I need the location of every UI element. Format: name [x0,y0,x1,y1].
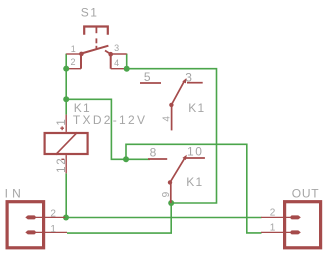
switch S1 lever pole2 [105,51,111,55]
svg-text:3: 3 [114,43,119,53]
svg-text:9: 9 [161,191,172,197]
wire net N3 pole2 to contact2 common [127,69,217,203]
wire net N1 switch pole1 to coil top [65,54,67,115]
switch S1 pole2 contact edge [110,54,112,69]
relay contact A pivot dot [169,103,173,107]
svg-text:IN: IN [5,187,25,201]
relay K1 coil minus mark [61,158,64,160]
switch S1 lever pole1 [81,46,108,54]
switch S1 pole2 pin3 line [111,53,127,55]
svg-text:2: 2 [50,209,56,220]
wire net N4 coil bottom to IN pin2 [65,173,67,217]
svg-text:4: 4 [162,116,173,122]
junction dot switch pole1 / pin2 [63,66,69,72]
junction dot contact2 common [168,200,174,206]
svg-text:TXD2-12V: TXD2-12V [73,113,147,127]
connector IN pin2 pad [25,215,35,219]
wire net N2 branch to OUT pin1 [126,144,262,233]
connector IN pin1 line [36,231,68,233]
switch S1 pole2 pivot dot [108,52,113,57]
connector OUT pin2 line [261,216,291,218]
svg-text:2: 2 [270,208,276,219]
switch S1 dashed link [95,38,97,43]
svg-text:8: 8 [150,145,157,159]
svg-text:OUT: OUT [292,187,320,201]
switch S1 pole1 contact edge [80,54,82,69]
switch S1 pole2 pin4 line [111,68,126,70]
svg-text:K1: K1 [186,175,203,189]
svg-text:12: 12 [56,157,68,173]
svg-text:2: 2 [71,57,76,67]
svg-text:3: 3 [185,70,192,84]
connector OUT pin2 pad [291,215,301,219]
svg-text:1: 1 [56,119,68,125]
connector OUT pin1 pad [291,230,301,234]
switch S1 actuator stem [95,27,97,34]
relay contact A pin4 line [171,105,173,130]
svg-text:1: 1 [270,223,276,234]
relay contact A pin5 line [140,82,161,84]
relay K1 coil body [45,133,88,154]
junction dot IN pin2 [63,215,69,221]
svg-text:5: 5 [144,70,151,84]
relay contact A lever [171,81,184,105]
svg-text:4: 4 [114,58,119,68]
relay contact B pivot dot [168,180,172,184]
connector IN pin2 line [36,216,66,218]
relay contact A lever arrowhead [182,78,186,83]
relay K1 coil bottom pin [65,155,67,173]
wire net N4 IN pin2 to OUT pin2 [65,217,262,219]
wire net N3 switch pole2 down [126,54,128,69]
relay K1 coil plus mark [60,127,64,129]
junction dot switch pole2 / pin4 [124,66,130,72]
junction dot coil top [63,96,69,102]
svg-text:1: 1 [50,224,56,235]
connector IN pin1 pad [25,230,35,234]
relay K1 coil top pin [65,115,67,132]
relay contact A pin3 line [187,82,203,84]
connector OUT body [285,202,321,248]
wire net N2 coil-junction to pin8 of K1 contact2 [66,99,150,159]
switch S1 pole1 pin1 line [66,53,81,55]
switch S1 pole1 pin2 line [66,68,81,70]
relay contact B pin9 line [170,182,172,203]
relay contact B pin8 line [148,158,167,160]
relay contact B lever [170,159,184,183]
svg-text:S1: S1 [81,5,98,19]
svg-text:K1: K1 [188,101,205,115]
connector OUT pin1 line [261,231,291,233]
switch S1 actuator bracket [84,27,108,35]
svg-text:1: 1 [71,44,76,54]
wire net N3 branch to IN pin1 [67,203,171,233]
switch S1 pole1 pivot dot [79,52,84,57]
relay contact B lever arrowhead [183,155,187,160]
connector IN body [7,202,44,248]
svg-text:10: 10 [187,144,204,158]
relay contact B pin10 line [186,157,205,159]
relay K1 coil diagonal [56,132,78,154]
junction dot contact2 pin8 branch [123,156,129,162]
